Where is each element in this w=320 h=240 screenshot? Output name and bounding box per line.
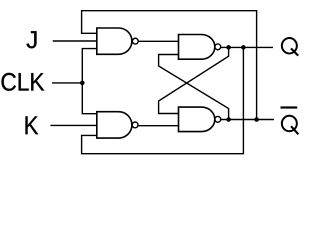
NAND gate U3 (Q latch gate) body xyxy=(179,35,215,60)
NAND gate U4 output bubble xyxy=(215,116,221,122)
NAND gate U1 (J input gate) body xyxy=(97,28,132,54)
NAND gate U2 (K input gate) body xyxy=(97,112,132,138)
NAND gate U4 (Qbar latch gate) body xyxy=(179,107,215,132)
NAND gate U3 output bubble xyxy=(215,44,221,50)
label Q xyxy=(282,38,297,53)
wire U1 output to U3 top input xyxy=(138,40,179,42)
wire CLK input lead xyxy=(52,82,82,84)
wire U2 output to U4 bottom input xyxy=(138,125,179,127)
junction Q node 1 xyxy=(226,45,231,50)
label Q-bar xyxy=(282,116,297,131)
wire K input lead xyxy=(50,124,96,126)
wire CLK riser to gate U1 and U2 inputs xyxy=(82,49,97,114)
NAND gate U2 output bubble xyxy=(132,122,138,128)
junction Qbar node 1 xyxy=(226,117,231,122)
junction Q node 2 xyxy=(241,45,246,50)
label J xyxy=(27,31,37,48)
wire cross-coupling: Qbar node to U3 lower input xyxy=(159,55,229,120)
junction Qbar node 2 xyxy=(254,117,259,122)
wire Qbar output line xyxy=(221,119,275,121)
label CLK xyxy=(2,73,45,91)
wire cross-coupling: Q node to U4 upper input xyxy=(159,47,229,113)
wire J input lead xyxy=(53,40,97,42)
overline of Q-bar xyxy=(281,106,298,108)
wire Q feedback: from Q node down along bottom into U2 bottom input xyxy=(82,47,244,153)
NAND gate U1 output bubble xyxy=(132,38,138,44)
junction CLK node xyxy=(80,81,85,86)
wire Q output line xyxy=(221,46,274,48)
wire Qbar feedback: top wire down into U1 top input xyxy=(82,11,257,120)
label K xyxy=(26,116,39,134)
